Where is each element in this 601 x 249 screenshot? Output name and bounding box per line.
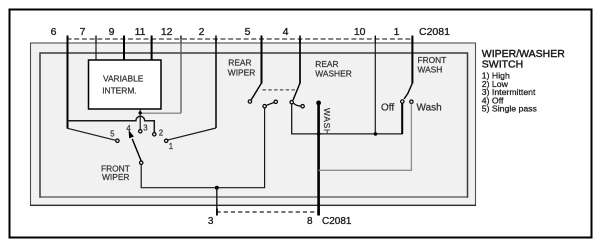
wire pin 2 vertical [215,39,217,128]
front wiper arm arrowhead at position 4 [129,130,134,138]
svg-text:11: 11 [135,26,146,38]
svg-text:9: 9 [109,26,115,38]
svg-text:REAR: REAR [228,58,251,68]
mechanical coupling dashed link [263,89,298,91]
svg-text:INTERM.: INTERM. [102,85,136,95]
wire pin 10 vertical [374,39,376,134]
svg-text:1: 1 [169,142,173,151]
pin 2 tick [215,36,217,43]
rear wiper label [228,58,255,78]
svg-text:6: 6 [51,26,57,38]
front wiper label [101,163,130,182]
WASH heavy wire down to pin 8 [317,103,320,216]
svg-text:C2081: C2081 [322,216,352,227]
front wiper contact 3 [139,130,142,133]
front wiper position labels [110,124,173,151]
wire pin 5 vertical [261,39,263,84]
rear washer switch arm [293,83,300,100]
pin 12 tick [180,36,182,43]
svg-text:2: 2 [159,129,163,138]
front wiper arm [132,139,141,161]
svg-text:C2081: C2081 [419,26,450,38]
wire pin 2 diagonal to contact 1 [168,128,216,140]
pin 5 tick [261,36,263,43]
front wiper contact 2 [153,133,156,136]
svg-text:REAR: REAR [315,59,338,69]
front wiper contact 5 [116,139,119,142]
svg-text:7: 7 [80,26,86,38]
wire contact C down then right along y134 [292,104,403,134]
legend title [482,48,565,114]
svg-text:Wash: Wash [417,102,442,113]
wire pin 1 vertical [411,39,413,84]
svg-text:WASHER: WASHER [315,69,351,79]
svg-text:1: 1 [394,26,400,38]
front wash label [418,55,447,75]
svg-text:2: 2 [199,26,205,38]
rear washer fixed contact D [301,105,304,108]
wire pivot down to bottom bus [141,108,264,187]
rear wiper fixed contact A [263,105,266,108]
svg-text:WASH: WASH [418,65,443,75]
junction pin 10 with y134 bus [374,132,378,136]
svg-text:WIPER: WIPER [228,67,255,77]
wire Wash contact gray down and left to WASH wire [319,104,412,171]
svg-text:5: 5 [110,129,115,138]
rear wiper arm tip contact [248,100,251,103]
rear wiper contact pair link [267,103,274,106]
svg-text:12: 12 [161,26,173,38]
rear wiper fixed contact B [274,100,277,103]
wire stub interm box bottom to node [139,109,141,113]
switch assembly inner box [40,53,468,197]
svg-text:WIPER: WIPER [102,172,129,182]
rear washer arm tip contact C [290,101,293,104]
pin 11 tick [151,36,153,43]
svg-text:10: 10 [354,26,366,38]
junction WASH wire with y134 bus [317,132,321,136]
svg-text:Off: Off [381,102,394,113]
inner box bottom edge (gray) [41,196,467,198]
svg-text:8: 8 [307,216,313,227]
rear washer label [315,59,351,79]
wire pin 4 vertical [299,39,301,84]
switch assembly outer box [31,43,476,206]
junction node under interm box [139,111,142,114]
pin labels top row [51,26,450,38]
svg-text:VARIABLE: VARIABLE [103,73,144,83]
svg-text:SWITCH: SWITCH [482,59,523,71]
wire pin 3 down through case [216,188,218,216]
svg-text:5) Single pass: 5) Single pass [482,104,538,114]
wire pin 6 diagonal to contact 5 [68,128,116,140]
pin 9 tick [123,36,125,43]
wire pin 9 into interm box [123,39,125,61]
wire pin 7 into interm box [95,39,97,61]
variable interm module box [89,60,162,109]
front wash Off contact [401,100,404,103]
svg-text:4: 4 [283,26,289,38]
svg-text:3: 3 [208,216,214,227]
front wiper contact 1 [165,139,168,142]
pin 3 tick [216,209,218,216]
wire pin 12 horizontal gray segment [140,112,181,114]
pin 10 tick [374,36,376,43]
connector C2081 bottom dashed line [217,211,320,213]
wire pin 12 gray down and left to node under interm box [180,39,182,113]
WASH node junction dot [316,101,321,106]
assembly box bottom edge (darker) [30,204,476,206]
svg-text:WASH: WASH [322,108,332,136]
wire node down to contact 3 (passes under bus hop) [139,113,141,129]
svg-text:5: 5 [245,26,251,38]
pin 7 tick [95,36,97,43]
pin 6 tick [67,36,69,43]
front wash switch arm [404,83,412,99]
pin 1 tick [411,36,413,43]
svg-text:3: 3 [143,124,147,133]
front wash Wash contact [410,100,413,103]
connector C2081 top dashed line [67,38,414,40]
rear washer contact pair link [294,103,301,106]
wire pin 6 vertical [67,39,69,129]
junction pin 3 tap [215,186,219,190]
pin 8 tick [317,209,319,216]
pin 4 tick [299,36,301,43]
wire Off contact down to y134 bus (heavy) [401,103,403,134]
wire bus y120.7 with hop over contact-3 wire, down to contact 2 [68,116,155,132]
front wiper arm pivot [140,161,143,164]
wire pin 11 into interm box [151,39,153,61]
svg-text:FRONT: FRONT [418,55,447,65]
rear wiper switch arm [251,83,261,100]
